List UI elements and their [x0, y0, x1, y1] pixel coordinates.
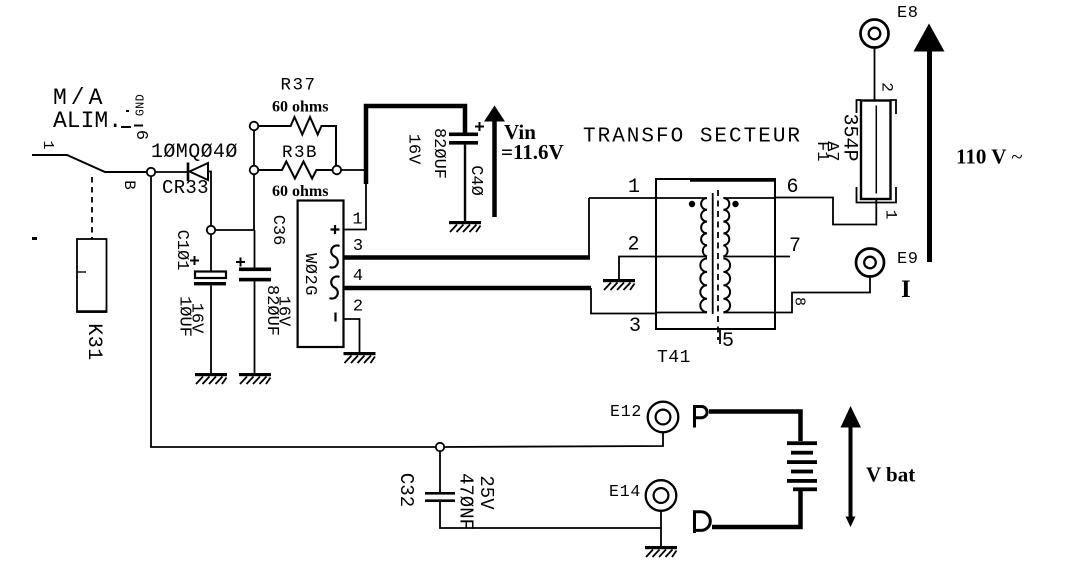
- svg-text:E14: E14: [609, 482, 641, 501]
- svg-text:B: B: [120, 180, 138, 190]
- terminal symbol D: [693, 511, 710, 534]
- svg-text:25V: 25V: [475, 475, 497, 510]
- polarity dot primary: [689, 201, 695, 207]
- wire left vertical R37/R38/C36: [253, 130, 256, 268]
- fuse F1 body: [857, 100, 897, 203]
- svg-text:R37: R37: [281, 76, 317, 96]
- primary winding taps: [656, 198, 707, 313]
- ground below C36: [239, 373, 271, 384]
- polarity dot secondary: [732, 201, 738, 207]
- wire node to C36/R-left vertical: [215, 229, 254, 231]
- wire C40 to ground: [464, 145, 466, 221]
- svg-text:=11.6V: =11.6V: [501, 140, 564, 164]
- svg-text:110 V ~: 110 V ~: [956, 145, 1023, 169]
- wire transformer pin6 to fuse: [775, 198, 876, 225]
- node junction above C32: [436, 443, 444, 451]
- plus sign C40: [475, 122, 484, 131]
- svg-text:1: 1: [882, 210, 900, 220]
- ground at T41 pin2: [603, 279, 635, 290]
- svg-text:5: 5: [722, 330, 734, 353]
- resistor R37: [258, 117, 336, 166]
- ground below C40: [449, 221, 481, 232]
- wire diode to corner, down to node: [208, 172, 211, 227]
- wire C36 to ground: [254, 281, 256, 373]
- connector E9: [856, 249, 884, 277]
- svg-text:3: 3: [629, 315, 641, 338]
- relay K31 dashed link: [91, 177, 93, 239]
- svg-text:R3B: R3B: [282, 143, 318, 163]
- transformer T41 box: [656, 179, 775, 329]
- svg-text:TRANSFO SECTEUR: TRANSFO SECTEUR: [583, 126, 802, 149]
- svg-text:47ØNF: 47ØNF: [455, 473, 477, 530]
- svg-text:E9: E9: [897, 250, 919, 269]
- svg-text:60 ohms: 60 ohms: [272, 183, 328, 200]
- svg-text:V bat: V bat: [866, 463, 915, 487]
- svg-text:C36: C36: [268, 215, 287, 246]
- diode CR33 10MQ040: [188, 163, 208, 182]
- stray mark: [32, 237, 37, 240]
- wire node to E12: [444, 431, 663, 447]
- primary winding arcs: [700, 198, 707, 312]
- svg-text:1: 1: [628, 176, 640, 199]
- capacitor C32: [425, 451, 661, 528]
- svg-text:60 ohms: 60 ohms: [272, 99, 328, 116]
- svg-text:9: 9: [135, 130, 154, 140]
- svg-text:3: 3: [353, 237, 363, 256]
- svg-text:C4Ø: C4Ø: [466, 165, 485, 196]
- svg-text:1ØMQØ4Ø: 1ØMQØ4Ø: [151, 141, 238, 164]
- bridge rectifier U1 W02G box: [298, 201, 344, 348]
- svg-text:82ØUF: 82ØUF: [429, 128, 448, 179]
- relay K31 inner tick: [77, 271, 86, 273]
- thick wire positive rail to C40: [366, 106, 465, 184]
- connector E14: [646, 480, 677, 511]
- dashed link to GND label: [121, 111, 143, 127]
- svg-text:1: 1: [352, 211, 362, 230]
- svg-text:16V: 16V: [274, 296, 293, 327]
- plus sign C101: [190, 256, 199, 265]
- node junction R38 left: [250, 166, 259, 175]
- svg-text:2: 2: [353, 298, 363, 317]
- ground below C101: [195, 373, 227, 384]
- relay K31 box: [77, 239, 107, 312]
- wire E14 to ground: [660, 511, 662, 546]
- wire W02G pin1: [344, 183, 367, 230]
- V bat arrow: [841, 406, 862, 527]
- Vin arrow: [484, 106, 505, 218]
- svg-text:2: 2: [627, 234, 639, 257]
- minus sign W02G: [334, 313, 336, 322]
- plus sign W02G: [331, 225, 340, 234]
- svg-text:354P: 354P: [838, 113, 861, 161]
- svg-text:E12: E12: [610, 402, 642, 421]
- ground below E14: [645, 546, 677, 557]
- 110V arrow: [914, 24, 945, 263]
- resistor R38: [258, 162, 332, 179]
- svg-text:2: 2: [878, 82, 896, 92]
- wire transformer pin8 to E9: [775, 277, 870, 313]
- wire node to C101: [210, 234, 212, 272]
- thick wire W02G pin3 to transformer: [344, 255, 591, 260]
- svg-text:CR33: CR33: [162, 177, 209, 199]
- wire W02G pin2 to ground: [344, 319, 360, 352]
- svg-text:I: I: [901, 276, 911, 303]
- wire switch node down and to battery row: [151, 176, 436, 447]
- thick wire W02G pin4 to transformer: [344, 286, 592, 291]
- svg-text:WØ2G: WØ2G: [300, 253, 319, 296]
- capacitor C101: [194, 272, 226, 286]
- svg-text:K31: K31: [82, 323, 105, 361]
- svg-text:C32: C32: [395, 473, 417, 507]
- wire junction to diode: [155, 171, 187, 173]
- svg-text:16V: 16V: [404, 134, 423, 165]
- svg-text:7: 7: [789, 235, 801, 258]
- secondary winding taps: [723, 198, 790, 313]
- AC symbol pin 4: [330, 276, 340, 298]
- wire transformer pin2 to ground: [619, 257, 656, 280]
- node junction above C101: [207, 226, 215, 234]
- wire transformer pin1: [589, 198, 656, 258]
- terminal symbol P: [693, 405, 707, 428]
- wire E8 to fuse: [874, 47, 876, 100]
- AC symbol pin 3: [330, 245, 340, 267]
- wire C101 to ground: [210, 286, 212, 374]
- secondary winding arcs: [723, 198, 730, 312]
- svg-text:4: 4: [353, 267, 363, 286]
- svg-text:T41: T41: [657, 348, 691, 368]
- svg-text:ALIM.: ALIM.: [53, 108, 122, 134]
- svg-text:8: 8: [791, 297, 808, 306]
- svg-text:6: 6: [786, 176, 798, 199]
- connector E12: [648, 402, 679, 433]
- thick wire P to battery: [709, 412, 801, 442]
- core solid line: [712, 193, 714, 314]
- ground below W02G pin2: [344, 352, 376, 363]
- node junction R37 left: [250, 122, 259, 131]
- capacitor C40: [449, 133, 478, 145]
- relay K31 bottom thick edge: [77, 310, 107, 313]
- svg-text:GND: GND: [135, 94, 148, 116]
- thick wire battery to D: [712, 491, 801, 527]
- transformer T41 box top thick edge: [690, 178, 775, 182]
- svg-text:16V: 16V: [187, 303, 206, 334]
- wire transformer pin3: [591, 288, 656, 314]
- connector E8: [861, 20, 889, 48]
- switch S1 lever: [32, 155, 147, 172]
- svg-text:E8: E8: [897, 4, 919, 23]
- svg-text:C1Ø1: C1Ø1: [172, 230, 191, 271]
- core dashed line: [717, 190, 719, 340]
- wire R38 right to thick vertical: [341, 169, 366, 171]
- svg-text:1: 1: [39, 140, 56, 149]
- wire transformer pin5: [719, 329, 721, 344]
- plus sign C36: [236, 258, 245, 267]
- battery BT1 plates: [787, 441, 817, 491]
- node junction R38 right: [333, 166, 342, 175]
- node junction at switch output: [147, 168, 155, 176]
- capacitor C36: [239, 268, 271, 282]
